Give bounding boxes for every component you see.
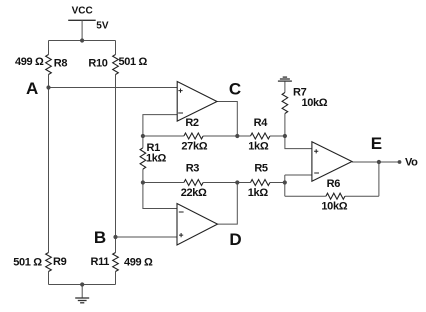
svg-text:10kΩ: 10kΩ [302, 97, 328, 109]
resistor R3 [184, 180, 203, 186]
svg-text:R2: R2 [185, 117, 199, 129]
op-amp U2 [177, 204, 218, 246]
node R1 top junction [141, 134, 145, 138]
node R5/R6 junction [283, 180, 287, 184]
node C junction [235, 134, 239, 138]
svg-text:Vo: Vo [405, 157, 418, 169]
wire node B to op-amp U2 + input [116, 236, 178, 238]
node R1 bottom junction [141, 180, 145, 184]
svg-text:A: A [26, 79, 38, 98]
node ground junction [80, 282, 84, 286]
wire right column upper [115, 41, 117, 55]
svg-text:R11: R11 [90, 256, 109, 268]
wire node A to op-amp U1 + input [49, 87, 178, 89]
op-amp U3 [312, 142, 352, 182]
wire R5 node vertical [284, 175, 286, 196]
svg-text:B: B [94, 228, 106, 247]
node A junction [46, 85, 50, 89]
wire op-amp U3 output to Vo [352, 161, 400, 163]
wire feedback vertical [378, 162, 380, 196]
svg-text:E: E [371, 134, 382, 153]
wire R7 top stub from ground [284, 81, 286, 92]
wire R1 stubs [142, 136, 144, 183]
svg-text:R9: R9 [53, 256, 67, 268]
svg-text:R5: R5 [254, 163, 268, 175]
resistor R10 [113, 55, 119, 75]
node E junction [377, 160, 381, 164]
node B junction [113, 235, 117, 239]
wire left column mid (node A to R9) [48, 75, 50, 253]
wire R3 row [143, 182, 285, 184]
svg-text:499 Ω: 499 Ω [124, 257, 153, 269]
svg-text:501 Ω: 501 Ω [13, 257, 42, 269]
node junction dots [46, 38, 401, 286]
svg-text:R4: R4 [254, 117, 269, 129]
wire R7 bottom to R4 row [284, 114, 286, 137]
ground (top, above R7) [278, 77, 292, 81]
svg-text:1kΩ: 1kΩ [248, 187, 269, 199]
wire R6 row left [285, 195, 326, 197]
resistor R1 [140, 148, 146, 169]
wire to op-amp U3 + input [285, 136, 312, 149]
wire op-amp U1 - input [143, 115, 177, 136]
node Vo terminal [398, 160, 402, 164]
resistor R2 [184, 133, 203, 139]
node D junction [235, 180, 239, 184]
wire top rail [49, 40, 116, 42]
wire op-amp U3 - input [285, 174, 312, 176]
svg-text:D: D [229, 230, 241, 249]
svg-text:27kΩ: 27kΩ [181, 141, 207, 153]
svg-text:1kΩ: 1kΩ [146, 153, 167, 165]
ground (bottom) [75, 298, 89, 303]
resistor R4 [251, 133, 270, 139]
resistor R6 [326, 193, 345, 199]
wire bottom rail [49, 284, 116, 286]
svg-text:1kΩ: 1kΩ [248, 141, 269, 153]
svg-text:R3: R3 [186, 163, 200, 175]
wire R2 row [143, 135, 285, 137]
wire right column mid (to node B, R11) [115, 75, 117, 253]
wire left column upper [48, 41, 50, 55]
svg-text:R6: R6 [327, 178, 341, 190]
svg-text:C: C [229, 79, 241, 98]
svg-text:501 Ω: 501 Ω [119, 56, 148, 68]
svg-text:5V: 5V [96, 20, 109, 31]
resistor R5 [251, 180, 270, 186]
resistor R11 [113, 253, 119, 272]
svg-text:R10: R10 [88, 57, 107, 69]
node VCC junction [80, 38, 84, 42]
node R7 junction [283, 134, 287, 138]
svg-text:22kΩ: 22kΩ [181, 187, 207, 199]
op-amp U1 [177, 82, 217, 122]
svg-text:499 Ω: 499 Ω [15, 56, 44, 68]
wire VCC stub [81, 20, 83, 40]
resistor R7 [282, 93, 288, 114]
VCC bar [68, 19, 96, 21]
wire right column lower [115, 272, 117, 285]
wire ground stub [81, 285, 83, 299]
resistor R8 [46, 55, 52, 75]
svg-text:VCC: VCC [72, 6, 93, 17]
wire left column lower [48, 272, 50, 285]
wire op-amp U1 output to node C [217, 102, 237, 137]
resistor R9 [46, 253, 52, 272]
svg-text:10kΩ: 10kΩ [321, 201, 347, 213]
wire op-amp U2 - input [143, 183, 177, 209]
wire R6 row right [345, 195, 379, 197]
wire op-amp U2 output to node D [218, 183, 238, 225]
svg-text:R8: R8 [54, 57, 68, 69]
